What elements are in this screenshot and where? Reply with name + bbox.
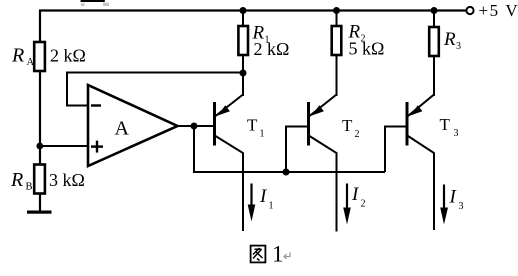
- svg-text:A: A: [115, 118, 130, 140]
- node: base bus / T2 tap: [283, 169, 290, 176]
- transistor T1 (PNP): [215, 73, 244, 231]
- top crop artifact bar: [81, 0, 105, 2]
- svg-text:T: T: [440, 115, 451, 134]
- T2 emitter lead: [310, 55, 337, 116]
- caption figure glyph "tu" (boxed character): [251, 246, 266, 263]
- T3 emitter lead: [408, 56, 434, 116]
- svg-text:1: 1: [260, 129, 265, 140]
- T2 collector lead: [310, 136, 337, 232]
- resistor R2: [332, 26, 342, 55]
- node: feedback / R1 bottom / T1 emitter: [240, 70, 247, 77]
- svg-text:T: T: [247, 116, 258, 135]
- svg-text:B: B: [26, 182, 33, 193]
- wire R3 branch vertical: [433, 11, 435, 97]
- ground: [27, 211, 52, 214]
- svg-text:2: 2: [355, 129, 360, 140]
- svg-text:3: 3: [454, 128, 459, 139]
- wire left rail: [39, 11, 41, 212]
- svg-text:5 kΩ: 5 kΩ: [349, 39, 385, 59]
- current arrow I1: [250, 184, 252, 209]
- T2 emitter arrow: [312, 105, 324, 115]
- node: top rail / R1 junction: [240, 7, 247, 14]
- svg-text:1: 1: [272, 242, 284, 267]
- node: top rail / R3 junction: [431, 7, 438, 14]
- T1 base bar: [213, 102, 216, 146]
- svg-text:2 kΩ: 2 kΩ: [254, 39, 290, 59]
- node: left rail / non-inverting input / RB top: [36, 143, 43, 150]
- wire base bus: output node down and across: [194, 126, 385, 172]
- wire op-amp output to T1 base: [177, 125, 214, 127]
- transistor T3 (PNP): [407, 56, 434, 230]
- wire T3 base tap: [385, 127, 406, 173]
- caption paragraph return mark: [284, 253, 290, 260]
- resistor RA: [34, 42, 45, 71]
- svg-text:T: T: [342, 116, 353, 135]
- current arrow I3: [443, 185, 445, 211]
- wire T2 base tap: [286, 127, 308, 173]
- T3 emitter arrow: [410, 105, 422, 115]
- T1 collector lead: [216, 136, 244, 231]
- wire feedback from R1 bottom node to inverting input: [67, 73, 243, 106]
- svg-text:3: 3: [459, 201, 464, 212]
- T3 base bar: [406, 102, 409, 146]
- current arrow I2: [346, 184, 348, 211]
- svg-text:R: R: [443, 29, 456, 50]
- svg-text:+5 V: +5 V: [479, 1, 518, 20]
- terminal +5V open circle: [466, 7, 473, 14]
- svg-text:R: R: [10, 169, 23, 191]
- op-amp inverting input minus sign: [91, 104, 101, 106]
- op-amp U1 triangle: [88, 85, 178, 166]
- resistor R3: [429, 27, 439, 56]
- node: op-amp output: [191, 123, 198, 130]
- op-amp non-inverting input plus sign: [91, 145, 103, 147]
- wire non-inverting input from left rail: [40, 145, 88, 147]
- wire top rail +5V: [39, 9, 467, 11]
- svg-text:R: R: [11, 45, 24, 67]
- svg-text:A: A: [27, 57, 35, 68]
- svg-text:2 kΩ: 2 kΩ: [50, 46, 86, 66]
- svg-text:3: 3: [456, 41, 461, 52]
- svg-text:1: 1: [269, 201, 274, 212]
- node: top rail / R2 junction: [333, 7, 340, 14]
- resistor RB: [34, 165, 45, 194]
- T2 base bar: [307, 102, 310, 146]
- transistor T2 (PNP): [309, 55, 337, 232]
- resistor R1: [238, 26, 248, 55]
- wire R1 branch vertical: [242, 11, 244, 97]
- wire R2 branch vertical: [336, 11, 338, 97]
- T1 emitter lead: [216, 73, 244, 116]
- T3 collector lead: [408, 136, 434, 230]
- svg-text:3 kΩ: 3 kΩ: [49, 170, 85, 190]
- T1 emitter arrow: [218, 105, 230, 115]
- svg-text:2: 2: [361, 199, 366, 210]
